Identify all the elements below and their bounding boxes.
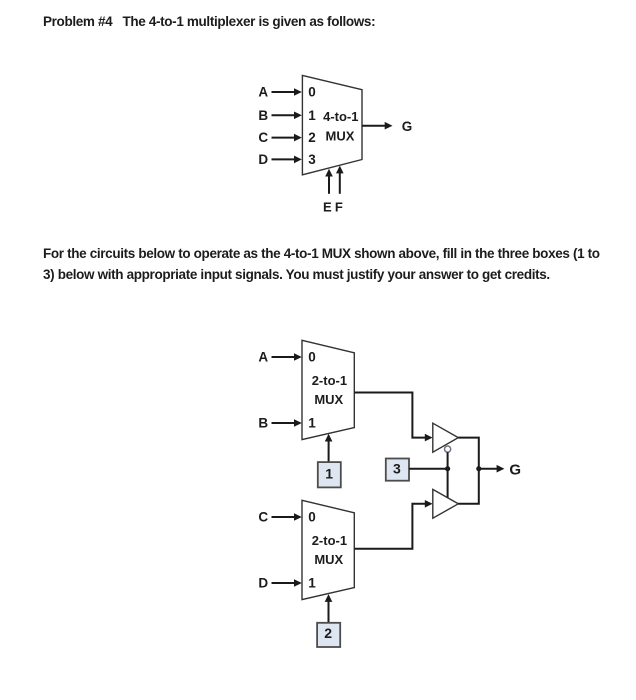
value label MUX (U2) (314, 392, 343, 407)
pin 1 label U3 (308, 576, 316, 591)
svg-text:MUX: MUX (314, 552, 343, 567)
svg-text:D: D (258, 576, 268, 591)
node C label (258, 130, 268, 145)
svg-text:F: F (335, 200, 343, 215)
svg-text:G: G (402, 119, 413, 134)
svg-text:0: 0 (308, 510, 316, 525)
pin 0 label U1 (308, 85, 316, 100)
node B label (258, 108, 268, 123)
value label 4-to-1 (U1) (323, 109, 358, 124)
mux U1 (4-to-1) body (302, 75, 362, 174)
svg-text:0: 0 (308, 350, 316, 365)
svg-text:MUX: MUX (314, 392, 343, 407)
wire D input arrow (272, 156, 302, 164)
svg-text:A: A (258, 350, 268, 365)
pin 0 label U2 (308, 350, 316, 365)
mux U2 (2-to-1, top) body (302, 340, 354, 439)
wire A input arrow (272, 88, 302, 96)
svg-text:C: C (258, 130, 268, 145)
svg-text:3: 3 (393, 460, 401, 476)
junction on enable line (445, 466, 450, 471)
svg-text:3: 3 (308, 152, 316, 167)
node G label (top diagram) (402, 119, 413, 134)
value label MUX (U3) (314, 552, 343, 567)
svg-text:D: D (258, 152, 268, 167)
wire from box 3 to enable line (409, 468, 448, 470)
box 1 (318, 462, 341, 487)
node A label (bottom diagram) (258, 350, 268, 365)
instruction paragraph (43, 243, 600, 285)
wire D input arrow to U3 (272, 579, 302, 587)
wire E select arrow into U1 (325, 169, 333, 194)
box 2 (317, 623, 340, 647)
wire U1 output arrow to G (362, 122, 393, 130)
svg-text:B: B (258, 416, 268, 431)
title text (43, 14, 375, 29)
svg-text:4-to-1: 4-to-1 (323, 109, 358, 124)
svg-text:1: 1 (325, 465, 333, 481)
svg-text:MUX: MUX (326, 128, 355, 143)
svg-text:1: 1 (308, 416, 316, 431)
node C label (bottom diagram) (258, 510, 268, 525)
node B label (bottom diagram) (258, 416, 268, 431)
svg-text:2-to-1: 2-to-1 (312, 533, 347, 548)
wire B input arrow to U2 (272, 419, 302, 427)
svg-text:2-to-1: 2-to-1 (312, 373, 347, 388)
node E label (323, 200, 332, 215)
wire output arrow to G (479, 465, 505, 473)
node D label (bottom diagram) (258, 576, 268, 591)
wire F select arrow into U1 (336, 166, 344, 194)
pin 3 label U1 (308, 152, 316, 167)
value label MUX (U1) (326, 128, 355, 143)
mux U3 (2-to-1, bottom) body (302, 500, 354, 599)
svg-text:E: E (323, 200, 332, 215)
tri-state buffer U4 (top, with bubble) (433, 423, 459, 452)
wire select arrow from box 1 into U2 (325, 434, 333, 462)
value label 2-to-1 (U2) (312, 373, 347, 388)
wire U2 output to buffer U4 (354, 393, 432, 442)
wire B input arrow (272, 112, 302, 120)
node F label (335, 200, 343, 215)
junction on output bus (476, 466, 481, 471)
wire enable line from bubble to U5 (447, 452, 449, 497)
svg-text:2: 2 (324, 625, 332, 641)
svg-text:0: 0 (308, 85, 316, 100)
wire U5 output to output bus (458, 469, 479, 504)
wire A input arrow to U2 (272, 353, 302, 361)
wire C input arrow (272, 134, 302, 142)
enable bubble on U4 (445, 446, 451, 452)
value label 2-to-1 (U3) (312, 533, 347, 548)
svg-text:2: 2 (308, 130, 316, 145)
svg-text:G: G (509, 461, 521, 478)
pin 1 label U1 (308, 108, 316, 123)
wire C input arrow to U3 (272, 513, 302, 521)
svg-text:C: C (258, 510, 268, 525)
pin 1 label U2 (308, 416, 316, 431)
tri-state buffer U5 (bottom) (433, 489, 459, 518)
svg-text:A: A (258, 85, 268, 100)
svg-text:1: 1 (308, 576, 316, 591)
node A label (258, 85, 268, 100)
svg-text:1: 1 (308, 108, 316, 123)
pin 0 label U3 (308, 510, 316, 525)
wire U3 output to buffer U5 (354, 500, 432, 549)
box 3 (386, 459, 409, 481)
svg-text:B: B (258, 108, 268, 123)
wire select arrow from box 2 into U3 (325, 594, 333, 623)
wire U4 output to output bus (458, 438, 479, 469)
node D label (258, 152, 268, 167)
node G label (bottom diagram) (509, 461, 521, 478)
pin 2 label U1 (308, 130, 316, 145)
